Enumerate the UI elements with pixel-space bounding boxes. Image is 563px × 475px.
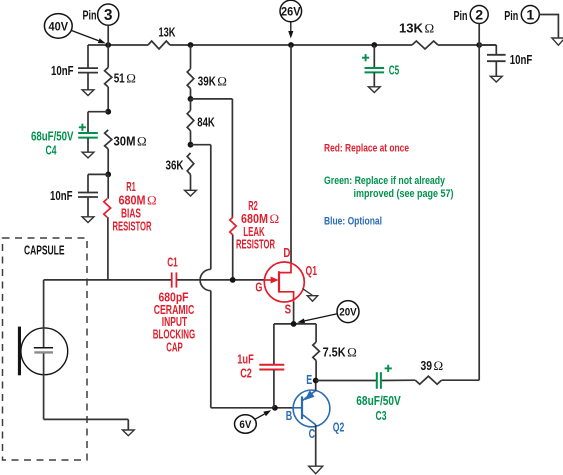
resistor 7.5K&#937; xyxy=(313,324,357,380)
svg-text:10nF: 10nF xyxy=(510,52,533,67)
wire top supply rail xyxy=(88,44,496,46)
svg-text:Ω: Ω xyxy=(425,21,435,36)
node junction Q1 source xyxy=(291,321,297,327)
svg-text:R1: R1 xyxy=(126,180,136,194)
pin 2 xyxy=(454,6,489,46)
svg-text:improved (see page 57): improved (see page 57) xyxy=(354,188,454,200)
svg-text:CAPSULE: CAPSULE xyxy=(24,244,65,258)
node junction dots on top rail xyxy=(105,42,482,48)
wire source rail xyxy=(274,323,316,325)
resistor 84K xyxy=(187,99,215,145)
legend green xyxy=(324,175,454,200)
resistor 51&#937; xyxy=(105,45,136,112)
node junction Q2 emitter xyxy=(313,378,319,384)
wire capsule to ground xyxy=(44,419,135,435)
svg-text:S: S xyxy=(285,303,292,317)
wire 36K-junction to base rail (with hop) xyxy=(191,145,295,408)
svg-text:Pin: Pin xyxy=(504,8,518,23)
ground Q1 case xyxy=(303,289,318,301)
svg-text:G: G xyxy=(255,280,262,294)
svg-text:Red: Replace at once: Red: Replace at once xyxy=(324,142,409,154)
svg-text:RESISTOR: RESISTOR xyxy=(236,238,275,252)
svg-text:2: 2 xyxy=(475,8,483,24)
capacitor C5 electrolytic xyxy=(362,45,399,93)
svg-text:13K: 13K xyxy=(159,25,176,40)
svg-text:30M: 30M xyxy=(114,134,136,149)
legend blue xyxy=(324,216,382,228)
capacitor 10nF (lower left) xyxy=(50,174,108,222)
legend red xyxy=(324,142,409,154)
svg-text:Ω: Ω xyxy=(147,192,157,207)
wire pin-2 rail down right side xyxy=(478,45,480,380)
svg-text:B: B xyxy=(286,409,293,423)
wire 39K junction to R2 xyxy=(191,99,233,217)
svg-text:Ω: Ω xyxy=(126,71,136,86)
svg-text:C5: C5 xyxy=(389,63,400,78)
svg-text:10nF: 10nF xyxy=(50,188,73,203)
svg-text:Q2: Q2 xyxy=(333,420,345,435)
svg-text:39: 39 xyxy=(421,358,433,373)
svg-text:C4: C4 xyxy=(46,143,58,158)
resistor 30M&#937; xyxy=(105,130,147,175)
svg-text:51: 51 xyxy=(114,71,125,86)
node junction gate/R2 xyxy=(230,277,236,283)
wire gate rail xyxy=(44,279,265,281)
svg-text:RESISTOR: RESISTOR xyxy=(113,220,152,234)
resistor 13K xyxy=(148,25,176,50)
label Q2 pins xyxy=(286,373,345,441)
resistor 36K xyxy=(166,153,197,196)
label C3 xyxy=(356,393,401,423)
svg-text:D: D xyxy=(283,246,290,260)
svg-text:C3: C3 xyxy=(376,408,387,423)
node 40V callout xyxy=(44,14,105,44)
node junction 39K/84K xyxy=(188,96,194,102)
svg-text:20V: 20V xyxy=(339,307,357,319)
svg-text:1: 1 xyxy=(526,8,534,24)
resistor R2 680M&#937; leak xyxy=(230,217,236,280)
capacitor 10nF (upper left) xyxy=(51,45,98,96)
svg-text:Ω: Ω xyxy=(137,134,147,149)
svg-text:680M: 680M xyxy=(119,193,146,207)
svg-text:Ω: Ω xyxy=(270,211,280,226)
resistor 39K&#937; xyxy=(187,45,227,99)
node 26V callout xyxy=(280,0,302,38)
svg-text:Green: Replace if not already: Green: Replace if not already xyxy=(324,175,446,187)
svg-text:Pin: Pin xyxy=(454,8,468,23)
label Q1 pins xyxy=(255,246,317,317)
label C2 xyxy=(237,352,254,380)
label C1 ceramic input blocking cap xyxy=(153,290,196,354)
capsule element (condenser) xyxy=(18,280,68,420)
resistor 13K&#937; (top) xyxy=(399,21,438,50)
svg-text:39K: 39K xyxy=(198,73,216,88)
capacitor 10nF (upper right) xyxy=(479,45,532,82)
svg-text:Pin: Pin xyxy=(83,8,97,23)
wire emitter rail xyxy=(316,379,416,381)
svg-text:13K: 13K xyxy=(399,21,424,36)
svg-text:Ω: Ω xyxy=(347,344,357,359)
svg-text:BIAS: BIAS xyxy=(121,207,141,221)
svg-text:E: E xyxy=(306,373,312,387)
svg-text:7.5K: 7.5K xyxy=(323,344,347,359)
svg-text:68uF/50V: 68uF/50V xyxy=(31,129,74,144)
svg-text:Ω: Ω xyxy=(434,358,444,373)
svg-text:3: 3 xyxy=(104,7,113,24)
transistor Q2 PNP xyxy=(293,381,330,474)
node junction 84K/36K xyxy=(188,142,194,148)
label R2 leak resistor xyxy=(236,199,279,252)
node junction C2/base rail (6V node) xyxy=(272,405,278,411)
svg-text:Blue: Optional: Blue: Optional xyxy=(324,216,382,228)
svg-text:68uF/50V: 68uF/50V xyxy=(356,393,401,408)
pin 3 xyxy=(83,4,119,45)
svg-text:26V: 26V xyxy=(281,4,301,18)
svg-text:Ω: Ω xyxy=(217,73,227,88)
svg-text:680M: 680M xyxy=(241,212,268,226)
svg-text:1uF: 1uF xyxy=(237,352,254,366)
capacitor C3 68uF/50V xyxy=(377,365,392,389)
svg-text:Q1: Q1 xyxy=(306,263,318,278)
capsule dashed enclosure xyxy=(3,238,88,460)
capacitor C4 68uF/50V xyxy=(31,112,108,158)
node junction 30M&#937;/R1 xyxy=(105,172,111,178)
node 20V callout xyxy=(297,301,359,324)
svg-text:40V: 40V xyxy=(49,19,69,33)
svg-text:36K: 36K xyxy=(166,158,184,173)
resistor R1 680M&#937; bias xyxy=(104,174,111,279)
svg-text:10nF: 10nF xyxy=(51,63,74,78)
svg-text:C1: C1 xyxy=(167,255,178,269)
node junction 51&#937;/30M&#937; xyxy=(105,109,111,115)
svg-text:C: C xyxy=(309,427,316,441)
svg-text:CAP: CAP xyxy=(166,340,183,354)
pin 1 with ground xyxy=(504,6,563,46)
transistor Q1 JFET xyxy=(264,45,304,324)
svg-text:6V: 6V xyxy=(239,419,252,431)
capacitor C2 1uF xyxy=(259,324,284,408)
capacitor C1 680pF xyxy=(167,255,178,287)
svg-text:R2: R2 xyxy=(248,199,258,213)
svg-text:84K: 84K xyxy=(197,114,215,129)
label R1 bias resistor xyxy=(113,180,157,233)
resistor 39&#937; xyxy=(415,358,479,384)
node 6V callout xyxy=(235,410,272,433)
svg-text:C2: C2 xyxy=(240,367,252,381)
